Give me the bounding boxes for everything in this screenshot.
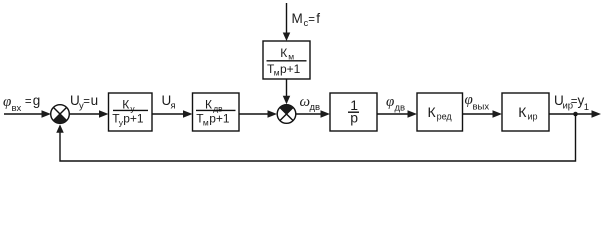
svg-text:ир: ир — [528, 111, 538, 121]
node U_ya label — [162, 93, 176, 112]
block W2: Kdv/(Tm p+1) — [193, 93, 240, 131]
node omega_dv label — [300, 94, 321, 113]
svg-text:φ: φ — [386, 94, 394, 110]
wire block Kdv to summer 2 — [239, 110, 277, 118]
svg-text:р: р — [350, 109, 358, 125]
svg-text:м: м — [274, 68, 280, 78]
summing junction 1 — [51, 105, 70, 124]
wire block Km down to summer 2 — [283, 79, 291, 104]
wire summer 1 to block Ky — [69, 110, 108, 118]
block W3: Km/(Tm p+1) — [263, 41, 310, 79]
wire block 1/p to block Kred — [377, 110, 417, 118]
node phi_vyh label — [465, 92, 490, 113]
svg-text:ред: ред — [437, 111, 453, 121]
svg-text:g: g — [33, 93, 41, 108]
svg-text:вых: вых — [473, 102, 490, 113]
svg-text:К: К — [428, 104, 437, 120]
svg-text:р+1: р+1 — [209, 112, 230, 126]
wire input to summer 1 — [4, 110, 51, 118]
svg-text:К: К — [518, 104, 527, 120]
svg-text:ω: ω — [300, 94, 311, 110]
junction node on output wire — [573, 112, 578, 117]
svg-text:м: м — [203, 117, 209, 127]
svg-text:я: я — [171, 101, 176, 112]
svg-text:р+1: р+1 — [123, 112, 144, 126]
wire feedback from output junction to summer 1 — [56, 114, 575, 161]
block W4: integrator 1/p — [330, 93, 377, 131]
node U_ir = y1 output label — [554, 93, 589, 113]
svg-text:дв: дв — [395, 103, 406, 114]
block W6: Kir — [502, 93, 549, 131]
svg-text:=: = — [308, 14, 315, 26]
svg-text:К: К — [122, 98, 129, 112]
wire block Ky to block Kdv — [152, 110, 193, 118]
wire disturbance input down to block Km — [283, 3, 291, 41]
svg-text:u: u — [91, 93, 99, 108]
svg-text:М: М — [292, 11, 303, 26]
block W1: Ky/(Ty p+1) — [109, 93, 153, 131]
svg-text:=: = — [83, 96, 90, 108]
wire summer 2 to block 1/p — [296, 110, 330, 118]
svg-text:f: f — [316, 11, 320, 26]
svg-text:К: К — [205, 98, 212, 112]
svg-text:1: 1 — [584, 102, 589, 113]
svg-text:К: К — [280, 46, 287, 60]
summing junction 2 — [277, 105, 296, 124]
svg-text:вх: вх — [12, 103, 22, 114]
svg-text:=: = — [25, 96, 32, 108]
node M_c = f disturbance label — [292, 11, 321, 29]
svg-text:φ: φ — [3, 94, 11, 110]
svg-text:дв: дв — [310, 102, 321, 113]
block W5: Kred — [417, 93, 463, 131]
svg-text:р+1: р+1 — [280, 62, 301, 76]
node phi_vx = g input label — [3, 93, 40, 114]
wire block Kred to block Kir — [463, 110, 503, 118]
node phi_dv label — [386, 94, 405, 114]
node U_y = u label — [70, 93, 98, 112]
wire output from block Kir — [549, 110, 601, 118]
